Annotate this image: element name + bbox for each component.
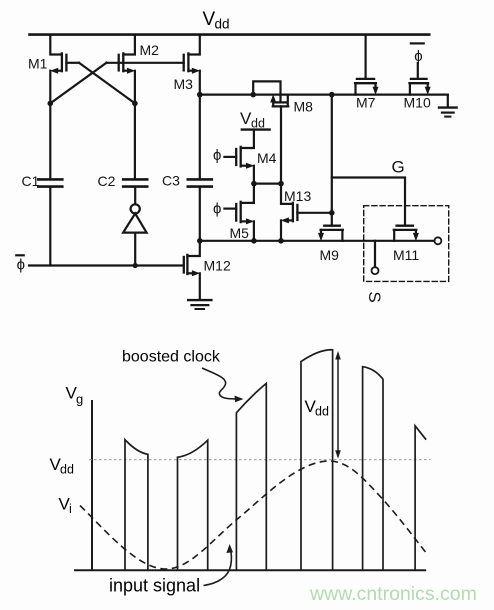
Vdd reference dotted line [89,459,430,461]
svg-text:i: i [69,502,72,516]
input signal annotation arrow [204,549,232,586]
svg-text:M13: M13 [284,188,311,204]
label Vdd axis [50,455,74,477]
node dot M13 source [278,238,284,244]
svg-text:www.cntronics.com: www.cntronics.com [309,583,477,605]
capacitor C1 [38,179,62,186]
input sine dashed curve [80,461,427,569]
label phibar right [411,43,424,65]
node dot inverter input [133,263,138,268]
svg-text:M9: M9 [320,247,340,263]
boosted clock annotation arrow [202,368,237,399]
svg-text:input signal: input signal [109,576,200,596]
node dot M8 tail [278,181,284,187]
svg-text:C3: C3 [162,173,180,189]
svg-text:M10: M10 [404,95,431,111]
Vdd power rail [30,33,430,36]
Vdd measure arrowhead bottom [335,450,341,459]
transistor M7 [355,35,378,95]
svg-text:ϕ: ϕ [213,147,221,164]
svg-text:C2: C2 [98,173,116,189]
node dot C3/M12 [197,238,203,244]
svg-text:M2: M2 [140,42,160,58]
node dot right [132,101,138,107]
svg-text:dd: dd [251,117,265,131]
boosted clock arrowhead [235,396,244,403]
transistor M1 [50,35,79,180]
transistor M4 [224,130,254,184]
node dot M4 source [251,181,257,187]
wire C1 bottom to phibar line [49,187,51,266]
input signal arrowhead [226,544,233,553]
waveform x-axis [74,569,426,571]
clock pulse 4 [301,350,333,570]
dashed box S [364,206,449,282]
Vdd small rail [242,128,270,130]
svg-text:dd: dd [60,463,74,477]
svg-text:M8: M8 [294,99,314,115]
svg-text:G: G [392,158,405,177]
node dot M5 source [251,238,257,244]
label Vg [66,384,84,407]
wire phibar line to M12 gate [29,264,184,266]
terminal circle bottom [372,267,379,274]
svg-text:M5: M5 [230,225,250,241]
wire C3 bottom to bottom rail [199,187,201,241]
terminal circle M11 right [434,237,441,244]
wire cross-couple M2 gate to node under M1 [50,63,106,104]
inverter [123,204,147,265]
svg-text:dd: dd [315,405,329,419]
transistor M5 [224,184,254,241]
wire C2 bottom to inverter [134,187,136,205]
clock pulse 6 [415,426,426,570]
transistor M11 [394,226,419,241]
svg-text:M7: M7 [356,95,376,111]
clock pulse 2 [178,440,208,569]
svg-text:M1: M1 [28,56,48,72]
clock pulse 1 [125,440,148,570]
svg-text:dd: dd [215,17,230,32]
wire node A down to C3 top [199,95,201,180]
transistor M3 [184,35,200,95]
capacitor C2 [123,179,147,186]
transistor M8 [253,81,288,183]
svg-text:M4: M4 [257,150,277,166]
svg-text:boosted clock: boosted clock [122,349,221,366]
label Vdd small [240,109,265,131]
svg-text:M3: M3 [174,76,194,92]
label phibar left [16,255,25,273]
node dot M8 gate tap [250,92,256,98]
wire cross-couple M1 gate to node under M2 [79,63,135,104]
svg-text:ϕ: ϕ [17,257,25,274]
node dot M13 gate tap [329,210,335,216]
ground right [439,108,457,117]
clock pulse 5 [363,367,383,570]
svg-text:M11: M11 [393,247,419,263]
svg-text:M12: M12 [204,258,231,274]
transistor M2 [119,35,136,180]
transistor M12 [184,241,200,299]
waveform y-axis [91,400,93,570]
wire node A to right ground [447,95,449,108]
bottom rail wire [200,240,434,242]
label Vdd main [203,9,230,32]
node dot boosted net branch [329,92,335,98]
wire boosted net vertical to M9 gate [331,95,333,226]
clock pulse 3 [236,383,266,569]
svg-text:S: S [365,291,384,302]
wire M4 source to M8 tail [254,183,281,185]
wire gate net M2 to M3 [107,62,184,64]
node A horizontal wire [200,93,448,95]
node dot left [48,101,54,107]
Vdd measure arrow [337,354,339,456]
label Vdd measure [305,397,329,419]
WAVEFORM [74,350,430,586]
wire node G [332,178,405,226]
svg-text:g: g [76,392,83,407]
node dot M3 source [197,92,203,98]
wire stub to bottom terminal [374,241,376,267]
transistor M10 [410,63,431,95]
transistor M13 [281,184,332,241]
svg-text:C1: C1 [22,173,40,189]
transistor M9 [318,226,343,241]
ground M12 [188,300,211,309]
Vdd measure arrowhead top [335,351,341,360]
label Vi [59,495,72,517]
capacitor C3 [188,179,212,186]
svg-text:ϕ: ϕ [213,201,221,218]
